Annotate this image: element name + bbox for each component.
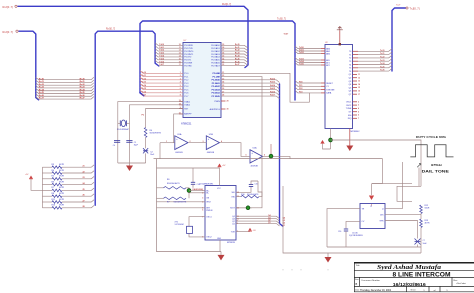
svg-text:P0.7/AD7: P0.7/AD7: [211, 64, 220, 67]
svg-text:2: 2: [358, 101, 359, 103]
svg-text:Document Number: Document Number: [362, 279, 381, 282]
svg-text:23: 23: [83, 177, 85, 179]
svg-text:U2A: U2A: [253, 147, 258, 150]
capacitor C14 to +5V rail: [192, 168, 194, 182]
title block frame: [354, 263, 474, 292]
svg-text:13: 13: [179, 53, 181, 55]
svg-text:RxJ0: RxJ0: [235, 44, 240, 46]
svg-text:RxD6: RxD6: [270, 91, 275, 93]
wire U4 bottom junction: [330, 129, 332, 150]
svg-text:TxD2: TxD2: [299, 52, 304, 54]
op IC U7 AT89C51 microcontroller: [183, 43, 221, 118]
svg-text:DAHDHGH1: DAHDHGH1: [193, 188, 204, 191]
wire junction to resistor column: [331, 140, 422, 186]
svg-text:SDGDHGH7S: SDGDHGH7S: [247, 194, 259, 196]
node terminal RxJ[0..7] left: [16, 30, 18, 32]
svg-text:25: 25: [83, 189, 85, 191]
svg-text:TxD7: TxD7: [159, 64, 164, 66]
svg-text:4069UB: 4069UB: [207, 152, 215, 154]
svg-text:975Hz: 975Hz: [431, 163, 443, 167]
svg-text:4K7R: 4K7R: [425, 223, 431, 225]
svg-text:RxJ5: RxJ5: [80, 92, 86, 94]
svg-text:P3.7/RD: P3.7/RD: [184, 65, 192, 67]
svg-text:21: 21: [83, 166, 85, 168]
svg-text:7: 7: [358, 118, 359, 120]
svg-text:OSC1: OSC1: [346, 102, 352, 104]
svg-text:RxD2: RxD2: [270, 78, 275, 80]
svg-text:RxJ2: RxJ2: [80, 84, 86, 86]
svg-text:RxJ6: RxJ6: [39, 95, 45, 97]
wire U2A output: [262, 156, 290, 158]
svg-text:33: 33: [222, 61, 224, 63]
node junction U2A output: [269, 154, 273, 158]
svg-text:TxJ3: TxJ3: [142, 82, 146, 84]
svg-text:C4: C4: [113, 145, 115, 147]
wire 555 DIS to R junction: [385, 214, 421, 216]
svg-text:MT8880C: MT8880C: [351, 131, 361, 133]
svg-text:6: 6: [358, 115, 359, 117]
svg-text:RxJ1: RxJ1: [80, 81, 86, 83]
svg-text:27: 27: [83, 200, 85, 202]
wire rail y183: [372, 182, 412, 184]
svg-text:JQC/3FF/4NFU: JQC/3FF/4NFU: [349, 235, 363, 237]
svg-text:15: 15: [358, 87, 360, 89]
svg-text:7: 7: [180, 91, 181, 93]
svg-text:P22: P22: [299, 88, 302, 90]
op IC U6 555 timer: [360, 204, 385, 229]
svg-text:TxJ3: TxJ3: [380, 60, 384, 62]
svg-text:GND: GND: [217, 238, 222, 240]
svg-text:C6 U6: C6 U6: [352, 233, 359, 235]
svg-text:RxJ6: RxJ6: [80, 95, 86, 97]
svg-text:TxD7: TxD7: [284, 34, 289, 36]
svg-text:4K7R: 4K7R: [59, 181, 65, 183]
wire left rail x155: [157, 159, 222, 252]
svg-text:3.579545M: 3.579545M: [175, 224, 184, 226]
svg-text:29: 29: [227, 101, 229, 103]
svg-text:TxJ[0..7]: TxJ[0..7]: [277, 19, 286, 21]
svg-text:STROBE: STROBE: [326, 89, 335, 91]
svg-text:RxJ3: RxJ3: [80, 87, 86, 89]
svg-text:12: 12: [179, 50, 181, 52]
svg-text:35: 35: [222, 56, 224, 58]
svg-text:RxJ0: RxJ0: [80, 78, 86, 80]
svg-text:RxJ7: RxJ7: [39, 98, 45, 100]
svg-text:TxJ0: TxJ0: [380, 50, 384, 52]
wire rail y247: [327, 246, 421, 248]
svg-text:RxJ4: RxJ4: [39, 88, 45, 91]
svg-text:AT89C51: AT89C51: [181, 123, 192, 126]
svg-text:RxJ4: RxJ4: [80, 88, 86, 91]
wire ladder common vertical: [41, 167, 43, 208]
svg-text:Size: Size: [355, 279, 359, 281]
resistor R10 on ESt: [236, 196, 241, 198]
capacitor C16: [346, 221, 360, 228]
svg-text:17: 17: [358, 94, 360, 96]
svg-text:P3.3/INT1: P3.3/INT1: [184, 54, 194, 56]
svg-text:P0.4/AD4: P0.4/AD4: [211, 56, 220, 59]
svg-text:4K7R: 4K7R: [59, 205, 65, 207]
waveform square wave: [410, 145, 453, 157]
svg-text:P3.6/WR: P3.6/WR: [184, 63, 193, 65]
svg-text:11.0592MHZ: 11.0592MHZ: [117, 129, 130, 131]
wire bus TxJ horizontal y21 with x140 and x295 drops: [140, 21, 295, 100]
wire to IN+ with net label: [189, 190, 205, 192]
svg-text:B: B: [356, 282, 358, 286]
svg-text:4069UB: 4069UB: [175, 152, 183, 154]
node junction U4 bottom: [329, 138, 333, 142]
svg-text:RxJ7: RxJ7: [235, 64, 240, 66]
svg-text:22: 22: [83, 171, 85, 173]
node terminal RxJ[0..7] top-left: [15, 5, 17, 7]
pins U4 right no-connect mid: [353, 73, 358, 75]
svg-text:TxD3: TxD3: [159, 53, 164, 55]
svg-text:RxJ3: RxJ3: [235, 53, 240, 55]
resistor R13 4K7R: [420, 214, 422, 220]
op IC U1 MT8870 DTMF decoder: [205, 186, 236, 241]
svg-text:P2.5/A13: P2.5/A13: [212, 88, 221, 91]
svg-text:30: 30: [227, 109, 229, 111]
wire XTAL1 drop: [118, 102, 183, 163]
alignment dots: [282, 269, 283, 270]
svg-text:3: 3: [202, 197, 203, 199]
svg-text:Sheet: Sheet: [411, 289, 416, 292]
wire INH row: [157, 207, 206, 209]
svg-text:2: 2: [180, 75, 181, 77]
svg-text:TOE: TOE: [231, 231, 236, 233]
svg-text:P2.2/A10: P2.2/A10: [212, 79, 221, 82]
svg-text:1: 1: [180, 72, 181, 74]
wire P2.1 long vertical to StGT: [221, 77, 262, 208]
wire staircase join: [309, 93, 311, 102]
wire VRef row: [157, 201, 206, 203]
node terminal TxJ[0..7] top-right: [406, 7, 408, 9]
wire bus TxJ to top-right terminal: [392, 8, 406, 71]
svg-text:PSEN: PSEN: [214, 101, 220, 103]
wire bus RxJ top rail: [18, 6, 248, 67]
wire XTAL2 drop: [130, 105, 184, 163]
svg-text:OSC2: OSC2: [206, 237, 212, 239]
op IC U4 MT8880: [325, 45, 353, 129]
wire 555 output: [385, 208, 403, 210]
svg-text:14: 14: [358, 83, 360, 86]
power +5V MT8870: [157, 168, 220, 186]
svg-text:39: 39: [222, 44, 224, 46]
svg-text:C7: C7: [423, 240, 425, 242]
svg-text:4: 4: [371, 204, 372, 207]
svg-text:PWDN: PWDN: [206, 210, 213, 212]
svg-text:6: 6: [264, 155, 265, 157]
svg-text:RxJ6: RxJ6: [235, 61, 240, 63]
svg-text:3: 3: [203, 141, 204, 143]
crystal Y1 11.0592MHZ: [121, 120, 125, 127]
wires U4 RESET C1 STROBE DATA from bus: [295, 81, 321, 83]
pins U7 XTAL1 XTAL2 RST EA: [179, 101, 183, 103]
wire bus x279: [280, 84, 283, 226]
svg-text:26: 26: [83, 195, 85, 197]
svg-text:4K7R: 4K7R: [59, 176, 65, 178]
svg-text:SDGDHGH7S: SDGDHGH7S: [174, 202, 187, 204]
wire EA drop joins U5A input: [174, 114, 183, 143]
svg-text:2: 2: [190, 141, 191, 143]
svg-text:14: 14: [179, 55, 181, 58]
svg-text:P3.4/T0: P3.4/T0: [184, 57, 192, 59]
capacitor C2 10uF electrolytic: [145, 138, 147, 149]
svg-text:6: 6: [202, 210, 203, 212]
svg-text:4K7R: 4K7R: [59, 193, 65, 195]
ground U4: [346, 146, 353, 152]
pins U4 right no-connect low: [353, 101, 358, 103]
svg-text:16: 16: [179, 61, 181, 63]
wire bus x95 with top run to x155: [95, 31, 159, 205]
svg-text:SDGDHGH7S: SDGDHGH7S: [167, 183, 180, 185]
svg-text:THR: THR: [379, 220, 384, 222]
svg-text:17: 17: [179, 64, 181, 66]
svg-text:C16: C16: [338, 231, 341, 233]
pins U7 PSEN ALE no-connect: [221, 100, 226, 102]
svg-text:36: 36: [222, 53, 224, 55]
resistor R8 input network: [157, 187, 164, 189]
op-amp U5B buffer: [206, 136, 219, 150]
power +5V U4 top: [339, 31, 341, 45]
svg-text:TxJ6: TxJ6: [142, 91, 146, 93]
svg-text:3: 3: [358, 105, 359, 107]
wire StGT row: [236, 207, 252, 209]
ground rail y253: [327, 253, 329, 257]
svg-text:C15: C15: [255, 183, 258, 185]
wire MT8870 ground: [219, 240, 221, 252]
crystal X2 3.579545M: [189, 217, 205, 227]
svg-text:TxD2: TxD2: [159, 50, 164, 52]
wire 555 TR loop: [327, 209, 360, 247]
wire to IN-: [189, 192, 205, 194]
svg-text:RxJ[0..7]: RxJ[0..7]: [3, 5, 14, 9]
svg-text:C14: C14: [197, 184, 200, 186]
svg-text:P0.0/AD0: P0.0/AD0: [211, 44, 220, 47]
svg-text:IRQ: IRQ: [348, 118, 352, 120]
svg-text:4: 4: [180, 81, 181, 84]
svg-text:C8 DAHDHGH1: C8 DAHDHGH1: [199, 182, 214, 185]
svg-text:32: 32: [222, 64, 224, 66]
svg-text:P0.5/AD5: P0.5/AD5: [211, 59, 220, 62]
svg-text:P0.1/AD1: P0.1/AD1: [211, 47, 220, 50]
svg-text:3: 3: [180, 78, 181, 80]
svg-text:12: 12: [358, 77, 360, 79]
svg-text:15: 15: [179, 58, 181, 60]
svg-text:34: 34: [222, 57, 224, 60]
wire U5A out to U5B: [188, 142, 206, 144]
svg-text:ALE/PROG: ALE/PROG: [210, 108, 221, 111]
svg-text:TxD6: TxD6: [159, 61, 164, 63]
svg-text:OSC2: OSC2: [346, 105, 352, 107]
capacitor C15 on StD: [236, 187, 251, 192]
svg-text:RxJ2: RxJ2: [39, 84, 45, 86]
wire U4 ground: [349, 129, 351, 146]
wire TOE +5V: [236, 231, 250, 233]
svg-text:P2.1/A9: P2.1/A9: [213, 75, 221, 78]
svg-text:4K7R: 4K7R: [59, 199, 65, 201]
svg-text:TxJ2: TxJ2: [380, 57, 384, 59]
svg-text:StGT: StGT: [230, 207, 235, 210]
svg-text:DAIL TONE: DAIL TONE: [422, 170, 450, 174]
wires U4 right pins to TxJ bus: [353, 50, 359, 52]
svg-text:Syed Ashad Mustafa: Syed Ashad Mustafa: [377, 265, 441, 271]
wire U5A input: [160, 142, 175, 144]
svg-text:<RevCode>: <RevCode>: [456, 282, 467, 285]
wire net y158 drop x382: [372, 159, 383, 184]
svg-text:5: 5: [246, 155, 247, 157]
svg-text:4K7R: 4K7R: [59, 187, 65, 189]
wires bus x140 entries to U7 P1 pins: [140, 71, 183, 74]
op-amp U5A buffer: [175, 136, 188, 150]
svg-text:11: 11: [358, 74, 360, 76]
resistor R1 on RST: [146, 109, 183, 128]
cursor mark: [417, 164, 421, 168]
wire rail y253: [283, 186, 421, 253]
svg-text:P2.3/A11: P2.3/A11: [212, 82, 221, 85]
svg-text:16/12/02/8616: 16/12/02/8616: [393, 282, 426, 288]
svg-text:4: 4: [358, 107, 359, 110]
wire U5B out to U2A: [220, 143, 251, 157]
svg-text:RxJ[0..7]: RxJ[0..7]: [3, 30, 14, 34]
wire box left of R12: [397, 186, 421, 201]
wires U7 P0 pins to bus x248: [221, 45, 248, 48]
svg-text:P0.3/AD3: P0.3/AD3: [211, 53, 220, 56]
svg-text:IN-: IN-: [206, 193, 209, 195]
svg-text:11: 11: [179, 47, 181, 49]
wires Q1-Q4 to bus: [236, 216, 280, 219]
svg-text:P2.0/A8: P2.0/A8: [213, 72, 221, 75]
svg-text:38: 38: [222, 47, 224, 49]
svg-text:P2.6/A14: P2.6/A14: [212, 92, 221, 95]
svg-text:4K7R: 4K7R: [59, 164, 65, 166]
svg-text:U5B: U5B: [209, 134, 214, 136]
wire 555 THR to C7: [385, 221, 418, 239]
svg-text:RxJ0: RxJ0: [39, 78, 45, 80]
svg-text:RxJ[0..7]: RxJ[0..7]: [106, 29, 115, 31]
wires bus x155 entries to U7 P3 pins: [155, 43, 183, 45]
svg-text:P23: P23: [299, 92, 302, 94]
svg-text:StD: StD: [231, 191, 235, 194]
svg-text:SDGDHGH7S: SDGDHGH7S: [150, 133, 162, 135]
svg-text:5: 5: [358, 111, 359, 113]
svg-text:RxJ3: RxJ3: [39, 87, 45, 89]
svg-text:RxJ7: RxJ7: [80, 98, 86, 100]
svg-text:VRef: VRef: [206, 202, 211, 204]
power arrow 555 VCC: [371, 183, 373, 195]
svg-text:TxD0: TxD0: [159, 44, 164, 46]
node junction input: [187, 189, 191, 193]
svg-text:RxJ[0..7]: RxJ[0..7]: [222, 4, 231, 6]
svg-text:RxD3: RxD3: [270, 82, 275, 84]
svg-text:TONE: TONE: [346, 108, 352, 110]
svg-text:4069UB: 4069UB: [251, 166, 259, 168]
svg-text:1: 1: [166, 141, 167, 143]
svg-text:DUTY CYCLE 60%: DUTY CYCLE 60%: [416, 135, 446, 139]
capacitor C7 10uF: [415, 239, 421, 245]
svg-text:RxJ2: RxJ2: [235, 50, 240, 52]
svg-text:P3.1/TXD: P3.1/TXD: [184, 48, 193, 50]
svg-text:U5A: U5A: [177, 133, 182, 136]
svg-text:P3.0/RXD: P3.0/RXD: [184, 45, 193, 47]
svg-text:5: 5: [180, 85, 181, 87]
wire annotation leader: [418, 168, 420, 187]
wire long net y158: [154, 158, 383, 160]
svg-text:ESt: ESt: [348, 114, 352, 117]
resistors R3-R13 4K7R ladder: [42, 166, 52, 168]
svg-text:P2.4/A12: P2.4/A12: [212, 85, 221, 88]
resistor R12 560R: [420, 205, 423, 214]
power +5V ladder: [31, 179, 42, 190]
svg-text:XTAL2: XTAL2: [184, 104, 191, 107]
svg-text:P0.6/AD6: P0.6/AD6: [211, 62, 220, 65]
svg-text:MT8870: MT8870: [227, 242, 236, 244]
svg-text:TxJ[0..7]: TxJ[0..7]: [410, 7, 420, 11]
ground crystal rail: [129, 163, 131, 166]
wire P2.0 staircase to U4: [221, 73, 310, 102]
svg-text:TxJ2: TxJ2: [142, 78, 146, 80]
wire into junction from above: [270, 144, 272, 156]
op-amp U2A buffer: [250, 150, 262, 163]
svg-text:Thursday, December 19, 2002: Thursday, December 19, 2002: [360, 289, 392, 292]
wires RxJ0-RxJ7 between left buses: [36, 77, 94, 79]
svg-text:P0.2/AD2: P0.2/AD2: [211, 50, 220, 53]
svg-text:28: 28: [83, 206, 85, 208]
svg-text:10: 10: [179, 44, 181, 46]
svg-text:16: 16: [358, 91, 360, 93]
svg-text:TxJ7: TxJ7: [142, 95, 146, 97]
svg-text:P3.2/INT0: P3.2/INT0: [184, 51, 194, 53]
svg-text:RxD7: RxD7: [270, 95, 275, 97]
svg-text:DATA: DATA: [326, 92, 332, 95]
svg-text:37: 37: [222, 50, 224, 52]
svg-text:ESt: ESt: [232, 195, 236, 198]
svg-text:4K7R: 4K7R: [59, 170, 65, 172]
svg-text:TxJ0: TxJ0: [142, 72, 146, 74]
svg-text:RxJ5: RxJ5: [39, 92, 45, 94]
svg-text:EA/VPP: EA/VPP: [184, 113, 192, 116]
wire waveform stem: [402, 162, 404, 209]
svg-text:RxJ1: RxJ1: [39, 81, 45, 83]
svg-text:P20: P20: [299, 82, 302, 84]
svg-text:P3.5/T1: P3.5/T1: [184, 60, 192, 62]
node junction StGT: [246, 206, 250, 210]
svg-text:TxJ6: TxJ6: [380, 70, 384, 72]
svg-text:13: 13: [358, 81, 360, 83]
capacitor C5 30pF: [126, 140, 132, 142]
wires bus x295 entries to U4 upper-left pins: [295, 46, 321, 48]
wire small +5V loop: [323, 144, 331, 150]
wire ground rail y163: [118, 162, 146, 164]
wire bus from terminal 2 to ladder: [19, 31, 39, 100]
svg-text:P2.7/A15: P2.7/A15: [212, 95, 221, 98]
ground MT8870: [218, 255, 225, 261]
svg-text:4: 4: [221, 140, 222, 143]
svg-text:OSC1: OSC1: [206, 217, 212, 219]
svg-text:6: 6: [180, 88, 181, 90]
capacitor C4 30pF: [114, 140, 120, 142]
svg-text:8: 8: [180, 95, 181, 97]
svg-text:560R: 560R: [425, 208, 430, 210]
svg-text:RESET: RESET: [326, 83, 333, 85]
svg-text:8 LINE INTERCOM: 8 LINE INTERCOM: [393, 272, 451, 279]
svg-text:XTAL1: XTAL1: [184, 100, 191, 103]
resistor R9 feedback: [157, 197, 164, 199]
